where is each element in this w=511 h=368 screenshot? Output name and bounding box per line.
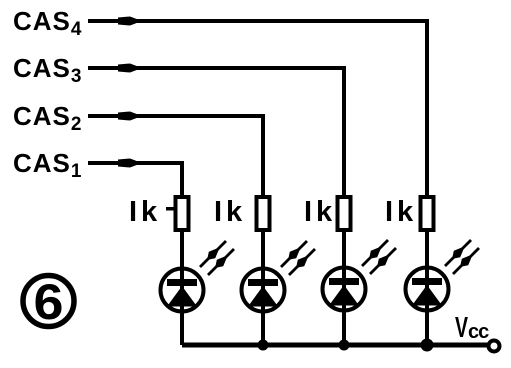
LED D1 — [161, 266, 204, 314]
svg-text:6: 6 — [34, 274, 64, 330]
arrowhead on CAS3 wire — [118, 64, 142, 73]
light arrows D4 — [445, 240, 479, 274]
wire LED to bus (column 4) — [425, 311, 429, 345]
LED D2 — [242, 266, 285, 314]
arrowhead on CAS1 wire — [118, 159, 142, 168]
figure number 6 — [23, 274, 74, 330]
svg-text:Ik: Ik — [385, 196, 417, 228]
wire CAS1 — [88, 163, 182, 195]
label Vcc — [455, 312, 489, 344]
net label CAS3 — [13, 53, 82, 87]
wire CAS2 — [88, 116, 263, 195]
resistor R (column 1) 1k — [166, 197, 189, 230]
arrowhead on CAS4 wire — [118, 17, 142, 26]
wire LED to bus (column 1) — [180, 312, 184, 345]
light arrows D2 — [281, 241, 315, 275]
light arrows D3 — [362, 240, 396, 274]
svg-text:Ik: Ik — [214, 196, 246, 228]
svg-text:Ik: Ik — [304, 196, 336, 228]
svg-text:Ik: Ik — [129, 196, 161, 228]
wire LED to bus (column 2) — [261, 312, 265, 345]
net label CAS4 — [13, 6, 82, 40]
arrowhead on CAS2 wire — [118, 112, 142, 121]
value label 1k (resistor 2) — [214, 196, 246, 228]
light arrows D1 — [200, 241, 234, 275]
LED D3 — [323, 265, 366, 313]
wire LED to bus (column 3) — [342, 311, 346, 345]
LED D4 — [406, 265, 449, 313]
junction (column 4 / bus) — [421, 339, 434, 352]
svg-text:V: V — [455, 312, 468, 344]
Vcc bus wire — [182, 343, 489, 348]
wire CAS3 — [88, 68, 344, 195]
wire CAS4 — [88, 21, 427, 195]
wire resistor to LED (column 4) — [425, 232, 429, 268]
wire resistor to LED (column 2) — [261, 232, 265, 268]
Vcc terminal — [489, 341, 500, 352]
net label CAS2 — [13, 101, 82, 135]
junction (column 2 / bus) — [258, 340, 269, 351]
resistor R (column 2) 1k — [257, 197, 270, 230]
wire resistor to LED (column 1) — [180, 232, 184, 268]
value label 1k (resistor 1) — [129, 196, 161, 228]
resistor R (column 4) 1k — [421, 197, 434, 230]
value label 1k (resistor 4) — [385, 196, 417, 228]
net label CAS1 — [13, 148, 82, 182]
wire resistor to LED (column 3) — [342, 232, 346, 268]
value label 1k (resistor 3) — [304, 196, 336, 228]
junction (column 3 / bus) — [339, 340, 350, 351]
svg-text:cc: cc — [468, 321, 489, 343]
resistor R (column 3) 1k — [338, 197, 351, 230]
